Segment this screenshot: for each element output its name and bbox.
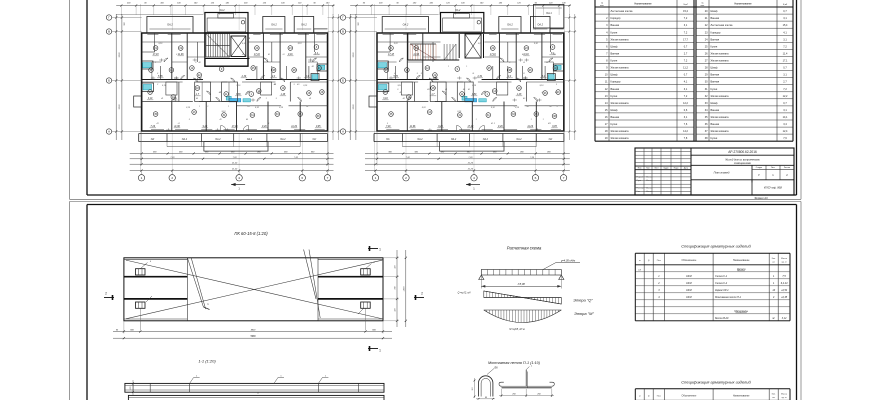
svg-text:Ванная: Ванная [711,109,720,112]
floor plan level 1 room number circles [148,45,324,119]
svg-text:1: 1 [375,176,377,180]
svg-text:6,2.24: 6,2.24 [781,282,788,285]
svg-text:д1: д1 [523,61,525,64]
svg-text:12,4: 12,4 [783,130,788,133]
svg-text:2: 2 [105,292,107,296]
svg-text:Коридор: Коридор [711,31,721,34]
svg-text:д1: д1 [523,72,525,75]
floor plan level 1 axis extension lines [141,4,329,172]
svg-text:7,2: 7,2 [684,60,688,63]
svg-text:1: 1 [199,106,200,108]
svg-text:пом.: пом. [701,5,705,7]
svg-text:11,4: 11,4 [783,53,788,56]
svg-text:15,4: 15,4 [683,10,688,13]
svg-text:Ванная: Ванная [711,74,720,77]
svg-text:Q =q·l/2, кН: Q =q·l/2, кН [458,291,471,294]
svg-text:7,2: 7,2 [783,45,787,48]
svg-text:1: 1 [476,119,477,121]
floor plan level 2 inner bath partitions [401,82,508,102]
svg-text:ОА.2: ОА.2 [417,138,423,141]
loop side elevation [499,366,554,398]
svg-text:Лестничная клетка: Лестничная клетка [711,24,734,27]
svg-text:ед. кг: ед. кг [782,397,787,399]
mounting loop title [488,361,541,365]
specification table 1 [635,253,790,320]
svg-text:11,2: 11,2 [683,67,688,70]
svg-text:S,м²: S,м² [683,3,688,6]
svg-text:0,7: 0,7 [684,45,688,48]
svg-text:Кол.: Кол. [772,258,776,260]
loop leader marks [140,263,147,269]
svg-text:Ванная: Ванная [711,81,720,84]
svg-text:Жилая комната: Жилая комната [611,137,630,140]
Q value note left [458,291,471,294]
section 1-1 label [198,359,216,364]
svg-text:Наименование: Наименование [733,259,750,262]
svg-text:Монтажная петля П-1: Монтажная петля П-1 [715,296,742,299]
floor plan level 2 top balconies [382,5,564,34]
svg-text:Кухня: Кухня [711,88,718,91]
svg-text:2: 2 [421,292,423,296]
svg-text:3,4: 3,4 [783,123,787,126]
specification table 1 title [681,244,751,249]
svg-text:1: 1 [448,66,449,68]
svg-text:ОА.2: ОА.2 [516,138,522,141]
floor plan level 2 left axis circles [340,14,377,140]
svg-text:Сетка С-1: Сетка С-1 [715,275,728,278]
floor plan level 2 corridor walls [377,66,564,82]
svg-text:3300: 3300 [353,104,355,110]
svg-text:Материалы: Материалы [735,310,749,313]
svg-text:2,7: 2,7 [684,53,688,56]
svg-text:№док: №док [663,167,668,170]
svg-text:№: № [701,1,703,4]
sheet 1 paper edge [70,0,802,199]
svg-text:Спецификация арматурных издели: Спецификация арматурных изделий [681,244,751,249]
svg-text:ед. кг: ед. кг [782,261,787,263]
svg-text:1: 1 [458,66,459,68]
svg-text:д1: д1 [427,88,429,91]
span dimension [481,275,561,289]
floor plan level 1 corridor walls [142,66,328,82]
svg-text:д1: д1 [178,122,180,125]
svg-text:Шкаф: Шкаф [711,102,718,105]
svg-text:д1: д1 [242,53,244,56]
svg-text:41: 41 [463,88,465,91]
svg-text:ОА.2: ОА.2 [271,24,277,27]
svg-text:шт.: шт. [772,397,775,399]
svg-text:Ванная: Ванная [611,116,620,119]
svg-text:3300: 3300 [119,52,121,58]
svg-text:1-1 (1:20): 1-1 (1:20) [198,359,216,364]
svg-text:Обозначение: Обозначение [682,394,697,397]
svg-text:ОА.2: ОА.2 [280,138,286,141]
svg-text:Жилая комната: Жилая комната [711,60,730,63]
title block sheet 1 [635,148,794,195]
svg-text:Иванов: Иванов [646,187,652,189]
svg-text:3,1: 3,1 [684,24,688,27]
svg-text:А: А [342,130,344,134]
svg-text:Наименование: Наименование [634,3,652,6]
svg-text:ОА.2: ОА.2 [182,138,188,141]
room explication table [595,0,793,141]
floor plan level 1 staircase and elevator [205,33,250,66]
svg-text:КЖИ: КЖИ [686,289,692,292]
svg-text:Эпюра "Q": Эпюра "Q" [573,297,593,302]
slab bottom dimensions [113,321,392,340]
svg-text:План этажей: План этажей [714,171,730,174]
svg-text:3,1: 3,1 [783,17,787,20]
floor plan level 2 room area labels [382,53,558,128]
svg-text:Жилая комната: Жилая комната [711,130,730,133]
floor plan level 2 interior walls upper [377,33,564,80]
svg-text:Н.контр.: Н.контр. [637,187,645,189]
svg-text:ОА.2: ОА.2 [219,9,225,12]
svg-text:ОА.2: ОА.2 [215,138,221,141]
svg-text:1: 1 [247,92,248,94]
svg-text:Сетка С-2: Сетка С-2 [715,282,728,285]
label epure M [574,311,594,316]
svg-text:41: 41 [306,105,308,108]
svg-text:ОА`: ОА` [386,138,390,141]
slab wedge cut right [304,250,316,300]
svg-text:Лист: Лист [771,167,775,169]
svg-text:Шкаф: Шкаф [711,10,718,13]
svg-text:КЖИ: КЖИ [686,282,692,285]
floor plan level 2 axis extension lines [375,4,565,172]
svg-text:Кухня: Кухня [611,95,618,98]
floor plan level 2 view direction arrow [466,183,480,191]
svg-text:1: 1 [466,66,467,68]
sheet 1 inner frame [87,0,797,195]
svg-text:д1: д1 [314,53,316,56]
svg-text:КЖИ: КЖИ [686,296,692,299]
svg-text:0,7: 0,7 [783,102,787,105]
svg-text:7,2: 7,2 [783,88,787,91]
supports [479,275,564,280]
svg-text:ОА`: ОА` [151,138,155,141]
svg-text:Жилая комната: Жилая комната [711,95,730,98]
slab plan drawing [124,250,383,331]
svg-text:№: № [601,1,603,4]
svg-text:Жилая комната: Жилая комната [611,130,630,133]
slab section marks 2-2 [104,292,424,301]
svg-text:1: 1 [207,106,208,108]
svg-text:1: 1 [543,119,544,121]
svg-text:АР-270800.62-2016: АР-270800.62-2016 [728,150,757,154]
svg-text:Шкаф: Шкаф [611,109,618,112]
section 2-2 partial drawing [128,393,384,405]
svg-text:Кухня: Кухня [611,31,618,34]
svg-text:Ванная: Ванная [711,123,720,126]
slab plan title PK 60-15-8 [234,231,268,236]
svg-text:Пров.: Пров. [637,180,642,182]
svg-text:S,м²: S,м² [783,3,788,6]
svg-text:Расчетная схема: Расчетная схема [507,245,542,250]
svg-text:4: 4 [238,176,240,180]
svg-text:3,12: 3,12 [782,317,787,320]
floor plan level 1 bathroom fixtures cyan [134,61,328,107]
svg-text:M =ql²/8, кН·м: M =ql²/8, кН·м [509,328,525,331]
svg-text:ОА.2: ОА.2 [537,24,543,27]
svg-text:ОА.2: ОА.2 [507,24,513,27]
svg-text:д1: д1 [317,53,319,56]
svg-text:+0,38: +0,38 [781,296,788,299]
calculation scheme title [507,245,542,250]
svg-text:Кухня: Кухня [711,45,718,48]
svg-text:Жилая комната: Жилая комната [611,38,630,41]
svg-text:шт.: шт. [772,261,775,263]
floor plan level 1 door swing arcs [164,58,317,102]
svg-text:41: 41 [258,91,260,94]
svg-text:6: 6 [301,176,303,180]
svg-text:41: 41 [161,97,163,100]
svg-text:14,2: 14,2 [683,130,688,133]
svg-text:15,4: 15,4 [783,24,788,27]
svg-text:2,7: 2,7 [783,81,787,84]
svg-text:Каркас КР-1: Каркас КР-1 [715,289,729,292]
svg-text:2: 2 [171,176,173,180]
svg-text:6: 6 [535,176,537,180]
svg-text:Коридор: Коридор [611,17,621,20]
svg-text:Ванная: Ванная [611,24,620,27]
floor plan level 2 [340,1,576,190]
svg-text:3,1: 3,1 [783,38,787,41]
svg-text:7,6: 7,6 [684,123,688,126]
svg-text:Шкаф: Шкаф [611,74,618,77]
svg-text:Бетон В-20: Бетон В-20 [715,317,729,320]
svg-text:А: А [108,130,110,134]
svg-text:Кол: Кол [646,168,649,170]
svg-text:д1: д1 [546,61,548,64]
svg-text:1: 1 [155,62,156,64]
svg-text:ОА.2: ОА.2 [167,24,173,27]
format A3 label sheet 1 [754,196,768,200]
floor plan level 2 staircase and elevator [408,33,484,60]
shear diagram Q [484,291,562,304]
floor plan level 2 door swing arcs [399,58,553,102]
specification table 2 title [681,380,751,385]
svg-text:14,1: 14,1 [783,116,788,119]
svg-text:Шкаф: Шкаф [711,67,718,70]
floor plan level 2 bottom dimension lines [365,131,570,172]
floor plan level 1 bottom balconies [139,126,328,152]
svg-text:7,2: 7,2 [684,17,688,20]
floor plan level 1 top balconies [147,17,328,34]
svg-text:ОА.2: ОА.2 [301,24,307,27]
floor plan level 2 bottom balconies [374,126,564,152]
svg-text:КГАСУ каф. ЖБК: КГАСУ каф. ЖБК [764,186,783,189]
Mmax note [509,328,525,331]
svg-text:7: 7 [327,176,329,180]
svg-text:3300: 3300 [119,104,121,110]
svg-text:Жилая комната: Жилая комната [711,53,730,56]
svg-text:17,7: 17,7 [683,38,688,41]
svg-text:ОА.2: ОА.2 [403,24,409,27]
svg-text:1: 1 [550,123,551,125]
slab wedge cut left [187,258,203,307]
svg-text:7,8: 7,8 [684,137,688,140]
svg-text:КЖИ: КЖИ [686,275,692,278]
svg-text:Жилая комната: Жилая комната [711,116,730,119]
svg-text:220: 220 [130,387,132,391]
svg-text:Монтажная петля П-1 (1:10): Монтажная петля П-1 (1:10) [488,361,541,365]
svg-text:Кухня: Кухня [611,60,618,63]
svg-text:Кухня: Кухня [611,123,618,126]
label epure Q [573,297,593,302]
svg-text:l=5,98: l=5,98 [518,282,526,286]
svg-text:Шкаф: Шкаф [611,45,618,48]
svg-text:ОА`: ОА` [312,138,316,141]
svg-text:Ванная: Ванная [711,38,720,41]
svg-text:д1: д1 [445,88,447,91]
svg-text:q=4,05 кН/м: q=4,05 кН/м [561,258,576,262]
svg-text:Б: Б [108,79,110,83]
floor plan level 1 inner bath partitions [166,82,272,102]
svg-text:7,6: 7,6 [783,137,787,140]
floor plan level 2 bathroom fixtures cyan [369,61,564,107]
svg-text:4: 4 [473,176,475,180]
svg-text:41: 41 [555,91,557,94]
svg-text:1: 1 [266,98,267,100]
svg-text:ОА.1: ОА.1 [546,12,552,15]
svg-text:4,1: 4,1 [783,31,787,34]
svg-text:Утв.: Утв. [637,191,641,193]
svg-text:Кухня: Кухня [711,137,718,140]
svg-text:3,1: 3,1 [684,116,688,119]
floor plan level 2 interior walls lower [377,82,564,131]
svg-text:3,1: 3,1 [783,109,787,112]
loop bent bar front view [472,367,498,400]
svg-text:Ванная: Ванная [711,17,720,20]
svg-text:Б: Б [342,79,344,83]
svg-text:+0,52: +0,52 [781,289,788,292]
svg-text:21,20: 21,20 [231,169,238,171]
svg-text:12,2: 12,2 [783,95,788,98]
svg-text:4,1: 4,1 [684,81,688,84]
svg-text:41: 41 [268,53,270,56]
svg-text:3300: 3300 [353,52,355,58]
distributed load band [481,270,561,276]
svg-text:1,48: 1,48 [281,93,286,96]
svg-text:Коридор: Коридор [611,81,621,84]
svg-text:21,20: 21,20 [231,162,238,164]
floor plan level 1 room area labels [147,53,322,128]
svg-text:помещениями: помещениями [734,162,752,165]
slab diagonal cross [126,260,382,319]
svg-text:Поз.: Поз. [657,395,662,397]
svg-text:Иванов: Иванов [646,180,652,182]
svg-text:Подп: Подп [674,168,679,170]
floor plan level 1 interior walls upper [142,33,328,80]
load callout q [543,258,580,269]
floor plan level 1 view direction arrow [231,183,245,191]
svg-text:ОА.2: ОА.2 [483,138,489,141]
svg-text:Спецификация арматурных издели: Спецификация арматурных изделий [681,380,751,385]
svg-text:7,2: 7,2 [684,95,688,98]
svg-text:Лестничная клетка: Лестничная клетка [611,10,634,13]
svg-text:д1: д1 [282,53,284,56]
svg-text:Наименование: Наименование [734,3,752,6]
slab right dimensions [383,250,407,327]
svg-text:д1: д1 [394,72,396,75]
floor plan level 1 right dimension column [328,14,341,140]
svg-text:Листов: Листов [784,167,790,169]
svg-text:Стадия: Стадия [756,167,762,169]
svg-text:3,1: 3,1 [783,74,787,77]
svg-text:0,7: 0,7 [783,67,787,70]
floor plan level 1 interior walls lower [142,82,328,131]
svg-text:0,7: 0,7 [783,10,787,13]
svg-text:41: 41 [491,122,493,125]
svg-text:Кол.: Кол. [772,393,776,395]
svg-text:Ванная: Ванная [611,88,620,91]
svg-text:2: 2 [405,176,407,180]
slab section marks 1-1 [368,246,381,353]
svg-text:0,6: 0,6 [684,109,688,112]
svg-text:ПК 60-15-8 (1:20): ПК 60-15-8 (1:20) [234,231,268,236]
svg-text:1,48: 1,48 [517,93,522,96]
svg-text:17,1: 17,1 [783,60,788,63]
svg-text:1: 1 [228,106,229,108]
floor plan level 1 bottom dimension lines [130,131,334,172]
floor plan level 2 bottom axis circles [372,171,567,182]
floor plan level 2 tiny labels [387,37,559,132]
svg-text:7,2: 7,2 [684,31,688,34]
section 1-1 drawing [125,376,384,396]
sheet 2 paper edge [70,202,802,401]
svg-text:Масса: Масса [781,258,788,260]
floor plan level 2 room number circles [383,45,560,119]
svg-text:1490: 1490 [402,286,405,292]
svg-text:Формат А3: Формат А3 [754,196,768,200]
svg-text:Наименование: Наименование [733,394,750,397]
svg-text:1: 1 [379,248,381,252]
svg-text:Эпюра "М": Эпюра "М" [574,311,594,316]
svg-text:ОА.2: ОА.2 [247,138,253,141]
svg-text:41: 41 [478,37,480,40]
svg-text:0,7: 0,7 [684,74,688,77]
svg-text:1: 1 [379,349,381,353]
svg-text:12,2: 12,2 [683,102,688,105]
svg-text:В: В [108,30,110,34]
svg-text:7: 7 [563,176,565,180]
floor plan level 2 stair tower [441,13,484,34]
svg-text:Иванов: Иванов [646,191,652,193]
svg-text:ОА`: ОА` [549,138,553,141]
svg-text:ОА.2: ОА.2 [451,138,457,141]
svg-text:41: 41 [309,97,311,100]
floor plan level 1 stair tower [205,13,248,34]
svg-text:21,20: 21,20 [467,162,474,164]
svg-text:Жилая комната: Жилая комната [611,67,630,70]
floor plan level 2 top dimension lines [350,1,571,15]
floor plan level 2 right dimension column [564,14,577,140]
svg-text:Разраб.: Разраб. [637,177,644,179]
svg-text:1: 1 [531,119,532,121]
svg-text:пом.: пом. [600,5,604,7]
floor plan level 1 outer walls [142,33,328,131]
svg-text:41: 41 [219,118,221,121]
sheet 2 inner frame [87,205,797,401]
svg-text:В: В [342,30,344,34]
svg-text:д1: д1 [472,72,474,75]
svg-text:Масса: Масса [781,393,788,395]
svg-text:21,20: 21,20 [467,169,474,171]
slab lifting loops [136,269,146,275]
moment diagram M [484,310,562,323]
svg-text:Поз.: Поз. [657,260,662,262]
